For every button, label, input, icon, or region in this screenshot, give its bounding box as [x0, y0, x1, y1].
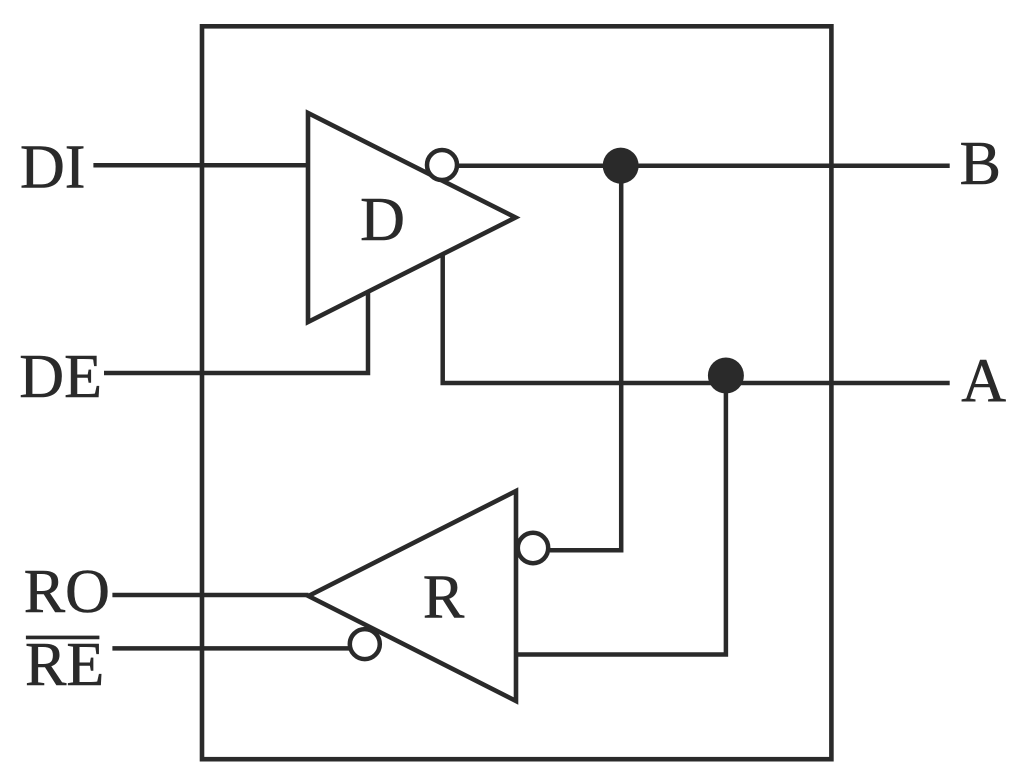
svg-text:DI: DI	[20, 134, 85, 202]
svg-text:B: B	[960, 130, 1001, 198]
svg-text:DE: DE	[19, 343, 102, 411]
svg-text:RE: RE	[25, 631, 104, 699]
svg-text:R: R	[423, 563, 465, 631]
svg-text:A: A	[961, 347, 1006, 415]
svg-text:D: D	[360, 186, 405, 254]
svg-text:RO: RO	[24, 558, 110, 626]
